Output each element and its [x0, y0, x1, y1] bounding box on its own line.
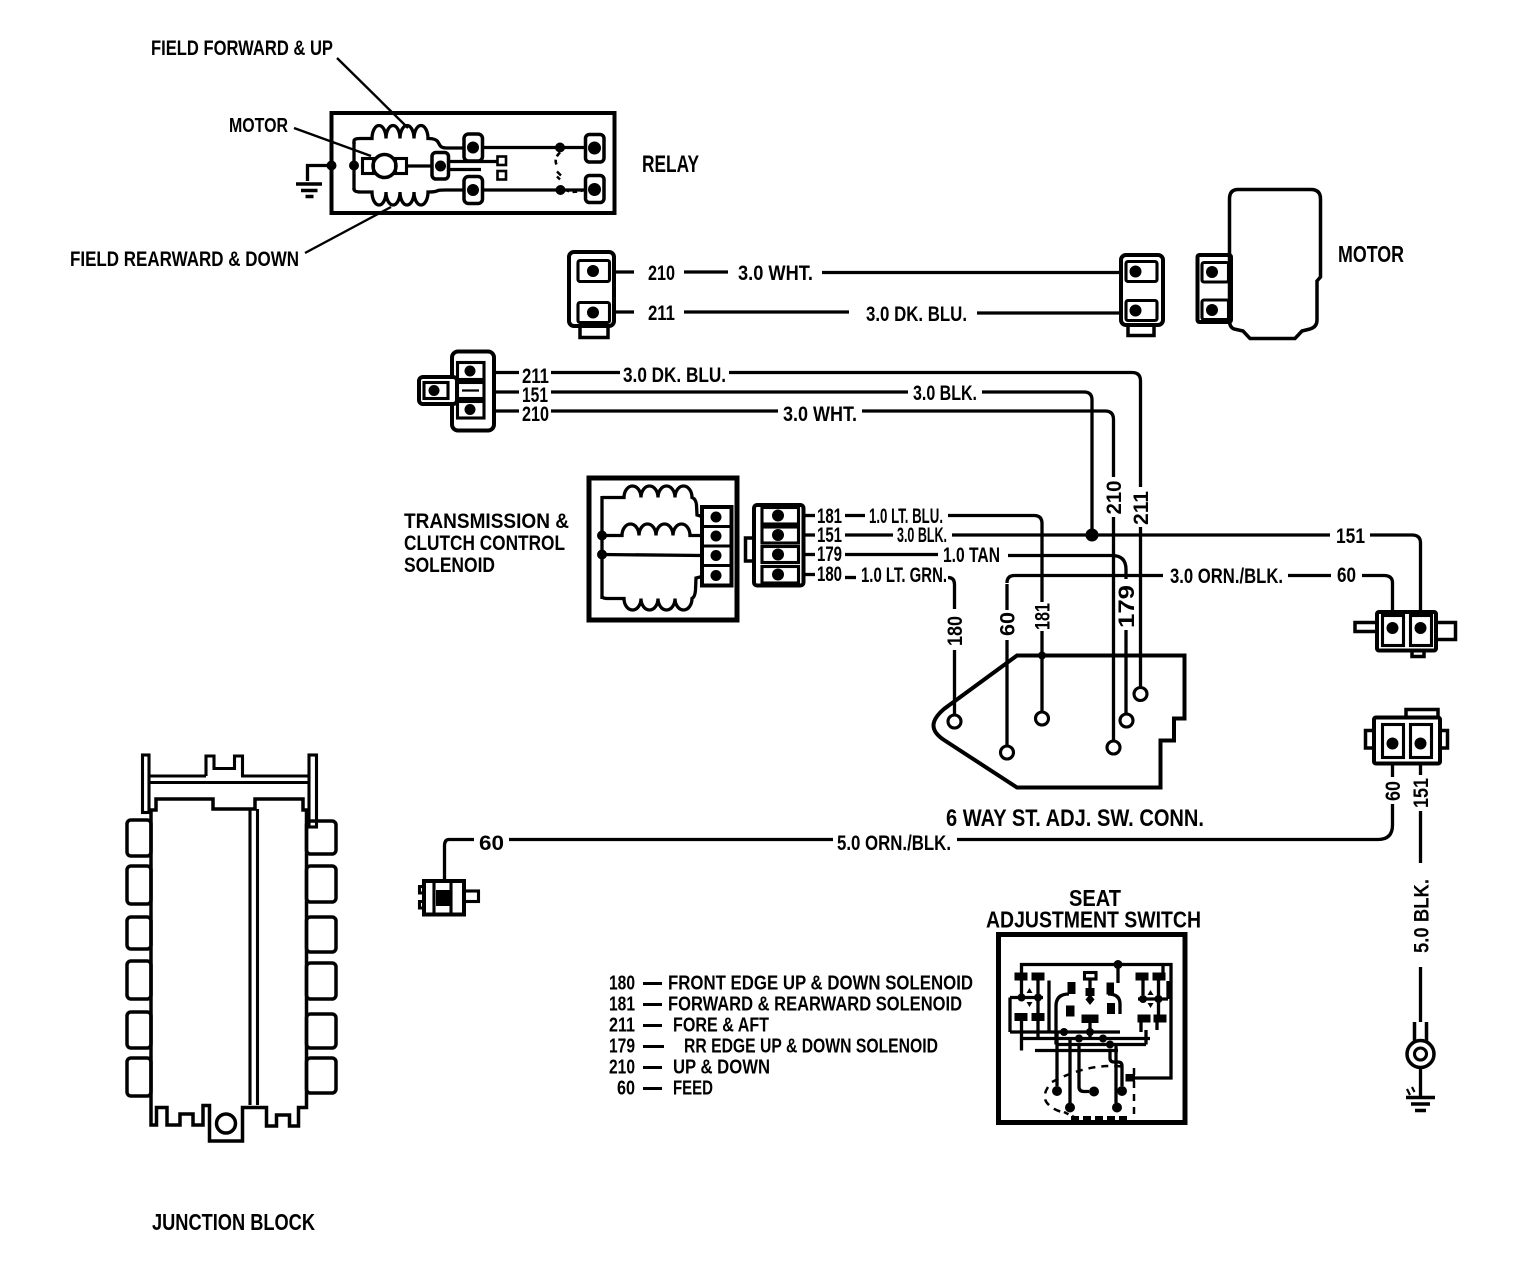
- contact square lower: [498, 171, 507, 180]
- wire 60 orn/blk horizontal: [1007, 576, 1163, 584]
- node: 181 on 6-way edge: [1038, 652, 1046, 660]
- svg-text:151: 151: [1336, 525, 1365, 548]
- svg-text:3.0 DK. BLU.: 3.0 DK. BLU.: [866, 303, 967, 326]
- node: 151 junction: [1086, 529, 1099, 542]
- connector C8 (feed 2-way lower): [1366, 710, 1448, 764]
- wire 181 stub: [804, 514, 816, 517]
- switch contact blobs row1: [1015, 973, 1166, 981]
- wire: armature fork lines: [449, 162, 498, 170]
- node: switch top dot: [1114, 960, 1123, 969]
- ground (battery): [1406, 1098, 1435, 1111]
- svg-text:3.0 WHT.: 3.0 WHT.: [738, 262, 813, 285]
- svg-text:1.0 TAN: 1.0 TAN: [943, 544, 1000, 567]
- coil: field rearward & down winding: [354, 188, 464, 205]
- terminal: relay inner top: [464, 134, 483, 161]
- motor brush left: [363, 159, 374, 174]
- switch top bus wire: [1022, 965, 1172, 1079]
- svg-text:5.0 BLK.: 5.0 BLK.: [1411, 879, 1434, 953]
- svg-text:151: 151: [1410, 778, 1433, 808]
- wire 181 vertical lower: [1040, 631, 1043, 712]
- switch right wiper: [1138, 981, 1168, 1008]
- wire 151 corner to C7: [1370, 535, 1421, 613]
- terminal: relay middle contact: [432, 153, 449, 180]
- wire 211 vertical lower: [1139, 527, 1142, 687]
- leader: motor: [294, 128, 371, 156]
- connector C2 (motor harness): [1121, 255, 1163, 336]
- ring terminal: [1407, 1022, 1434, 1068]
- connector C3 (motor pigtail): [1198, 255, 1232, 322]
- svg-text:TRANSMISSION &: TRANSMISSION &: [404, 509, 569, 533]
- relay box: [332, 113, 615, 213]
- contact square upper: [498, 157, 507, 166]
- svg-text:3.0 ORN./BLK.: 3.0 ORN./BLK.: [1170, 565, 1283, 588]
- wire 5.0 blk upper: [1419, 811, 1422, 863]
- wire 210 stub: [614, 270, 634, 273]
- svg-text:JUNCTION BLOCK: JUNCTION BLOCK: [152, 1209, 315, 1235]
- svg-text:179: 179: [609, 1036, 635, 1058]
- motor brush right: [396, 159, 407, 174]
- svg-text:CLUTCH CONTROL: CLUTCH CONTROL: [404, 531, 565, 555]
- wire 210 row mid: [551, 409, 778, 412]
- motor M1 armature circle: [373, 155, 396, 178]
- svg-text:210: 210: [522, 403, 549, 426]
- wire 179 dash: [845, 553, 938, 556]
- svg-text:MOTOR: MOTOR: [1338, 241, 1404, 267]
- wire 180 vertical lower: [953, 650, 956, 715]
- wire 210 row long + corner: [862, 411, 1114, 477]
- wire 60 feed left curve: [445, 840, 450, 881]
- svg-text:179: 179: [1114, 585, 1139, 628]
- wire 151 horizontal right: [1098, 533, 1330, 536]
- connector C1 (relay harness): [569, 252, 614, 338]
- svg-text:ADJUSTMENT SWITCH: ADJUSTMENT SWITCH: [986, 907, 1201, 933]
- svg-text:60: 60: [1337, 564, 1356, 587]
- svg-text:211: 211: [609, 1015, 635, 1037]
- wire: relay top row: [483, 146, 586, 149]
- svg-text:FRONT EDGE UP & DOWN SOLENOID: FRONT EDGE UP & DOWN SOLENOID: [668, 973, 973, 995]
- wire 211 row mid: [551, 371, 620, 374]
- wire 151 row long + corner + vertical: [982, 392, 1092, 535]
- wire 180 stub: [804, 573, 816, 576]
- wire 60 to orn/blk feed: [1378, 804, 1393, 840]
- pin 60: [1001, 746, 1014, 759]
- wire 210 row stub: [494, 409, 519, 412]
- svg-text:FORE & AFT: FORE & AFT: [673, 1015, 769, 1037]
- wire 179 corner + vertical upper: [1008, 556, 1126, 580]
- switch contact blobs row2: [1015, 1013, 1167, 1023]
- wire 179 vertical lower: [1124, 630, 1127, 714]
- connector C7 (feed 2-way): [1355, 612, 1456, 657]
- wire 151 row mid: [551, 390, 908, 393]
- pin 179: [1120, 714, 1133, 727]
- node: relay left junction: [327, 161, 337, 171]
- svg-text:RR EDGE UP & DOWN SOLENOID: RR EDGE UP & DOWN SOLENOID: [684, 1036, 938, 1058]
- svg-text:3.0 BLK.: 3.0 BLK.: [897, 524, 947, 547]
- svg-text:60: 60: [617, 1078, 635, 1100]
- wire: dot drop: [1118, 965, 1163, 984]
- wire: solenoid left bus: [600, 496, 603, 599]
- coil: solenoid middle winding: [602, 524, 702, 536]
- wire 211 mid: [684, 310, 849, 313]
- svg-text:FEED: FEED: [673, 1078, 713, 1100]
- svg-text:1.0 LT. GRN.: 1.0 LT. GRN.: [861, 564, 947, 587]
- svg-text:3.0 WHT.: 3.0 WHT.: [783, 403, 857, 426]
- wire 151 stub: [804, 533, 816, 536]
- coil: field forward & up winding: [354, 126, 464, 148]
- terminal block (solenoid): [702, 507, 732, 586]
- svg-text:SOLENOID: SOLENOID: [404, 553, 495, 577]
- wire 60 feed stub: [449, 838, 474, 841]
- switch lower wires and pins: [1052, 1032, 1135, 1113]
- connector C6 (inline feed): [420, 881, 479, 915]
- solenoid block (transmission & clutch control): [589, 478, 737, 620]
- svg-text:181: 181: [609, 994, 635, 1016]
- wire 60 vertical segments: [1005, 584, 1008, 746]
- wire 181 corner + vertical upper: [948, 516, 1042, 603]
- wire 179 stub: [804, 553, 816, 556]
- connector C4 (3-way): [419, 352, 494, 431]
- wire: bus to cell3: [602, 555, 702, 556]
- node: top armature junction: [555, 143, 565, 153]
- 6-way seat adjuster switch connector outline: [934, 656, 1185, 788]
- svg-text:FORWARD & REARWARD SOLENOID: FORWARD & REARWARD SOLENOID: [668, 994, 962, 1016]
- wire 211 stub: [614, 310, 634, 313]
- wire 210 mid: [684, 270, 728, 273]
- svg-text:5.0 ORN./BLK.: 5.0 ORN./BLK.: [837, 832, 951, 855]
- svg-text:FIELD FORWARD & UP: FIELD FORWARD & UP: [151, 37, 333, 60]
- svg-text:211: 211: [648, 302, 675, 325]
- wire 211 row stub: [494, 371, 519, 374]
- wire 211 long: [977, 311, 1121, 314]
- svg-text:210: 210: [609, 1057, 635, 1079]
- wire: relay inner left vertical: [352, 142, 355, 190]
- svg-text:3.0 DK. BLU.: 3.0 DK. BLU.: [623, 364, 726, 387]
- motor body: [1230, 190, 1321, 339]
- svg-text:FIELD REARWARD & DOWN: FIELD REARWARD & DOWN: [70, 248, 299, 271]
- switch left wiper: [1010, 988, 1043, 1032]
- ground (relay): [296, 166, 331, 197]
- wire: motor to middle terminal: [407, 164, 433, 167]
- wire 151 horizontal to junction: [952, 533, 1086, 536]
- wire 151 below C8: [1419, 764, 1422, 776]
- svg-text:60: 60: [1382, 781, 1405, 801]
- svg-text:60: 60: [479, 832, 504, 855]
- terminal: relay output top: [586, 135, 605, 163]
- terminal: relay output bottom: [586, 176, 605, 203]
- pin 210: [1107, 741, 1120, 754]
- svg-text:RELAY: RELAY: [642, 151, 699, 178]
- wire 180 dash: [845, 576, 856, 579]
- svg-text:UP & DOWN: UP & DOWN: [673, 1057, 770, 1079]
- svg-text:180: 180: [817, 563, 842, 586]
- seat adjustment switch box: [999, 935, 1186, 1123]
- relay armature dashed: [556, 153, 560, 167]
- svg-text:3.0 BLK.: 3.0 BLK.: [913, 382, 977, 405]
- node: motor bus junction: [349, 161, 359, 171]
- svg-text:210: 210: [1103, 481, 1126, 515]
- svg-text:6 WAY ST. ADJ. SW. CONN.: 6 WAY ST. ADJ. SW. CONN.: [946, 805, 1204, 832]
- wire to ground: [1419, 1068, 1422, 1096]
- wire 60 corner to C7: [1362, 576, 1393, 614]
- junction block lugs left: [127, 820, 151, 1096]
- wire 210 long: [822, 271, 1121, 274]
- connector C5 (solenoid 4-way): [746, 505, 804, 586]
- coil: solenoid bottom winding: [602, 577, 702, 611]
- wire 210 vertical lower: [1112, 517, 1115, 741]
- wire 211 row long + corner: [729, 373, 1141, 488]
- svg-text:210: 210: [648, 262, 675, 285]
- leader: field forward: [337, 58, 408, 128]
- node: solenoid bus dot A: [597, 531, 607, 541]
- svg-text:180: 180: [944, 616, 967, 646]
- terminal: relay inner bottom: [464, 177, 483, 204]
- node: bottom armature junction: [556, 185, 566, 195]
- switch internal wiring: [1010, 980, 1159, 1051]
- wire: relay bottom row: [483, 188, 586, 191]
- wire 151 dash: [845, 533, 893, 536]
- wire 60 below C8: [1391, 764, 1394, 778]
- junction block lugs right: [307, 821, 337, 1093]
- node: solenoid bus dot B: [597, 550, 607, 560]
- svg-text:181: 181: [1032, 603, 1055, 630]
- switch center contacts: [1066, 973, 1115, 1039]
- coil: solenoid top winding: [602, 486, 702, 516]
- pin 180: [948, 715, 961, 728]
- wire 60 dash: [1288, 574, 1331, 577]
- switch knob dashed outline: [1045, 1066, 1134, 1121]
- svg-text:180: 180: [609, 973, 635, 995]
- wire 5.0 blk lower: [1419, 967, 1422, 1022]
- wire 180 corner + vertical upper: [948, 578, 955, 610]
- pin 211: [1134, 688, 1147, 701]
- wire 5.0 orn/blk left: [509, 838, 833, 841]
- leader: field rearward: [305, 207, 391, 253]
- svg-text:MOTOR: MOTOR: [229, 115, 288, 137]
- wire 181 dash: [845, 514, 865, 517]
- svg-text:211: 211: [1130, 491, 1153, 525]
- svg-text:60: 60: [997, 612, 1020, 636]
- wire 5.0 orn/blk right: [957, 838, 1378, 841]
- pin 181: [1036, 712, 1049, 725]
- junction block outline: [143, 755, 317, 1141]
- wire 151 row stub: [494, 390, 519, 393]
